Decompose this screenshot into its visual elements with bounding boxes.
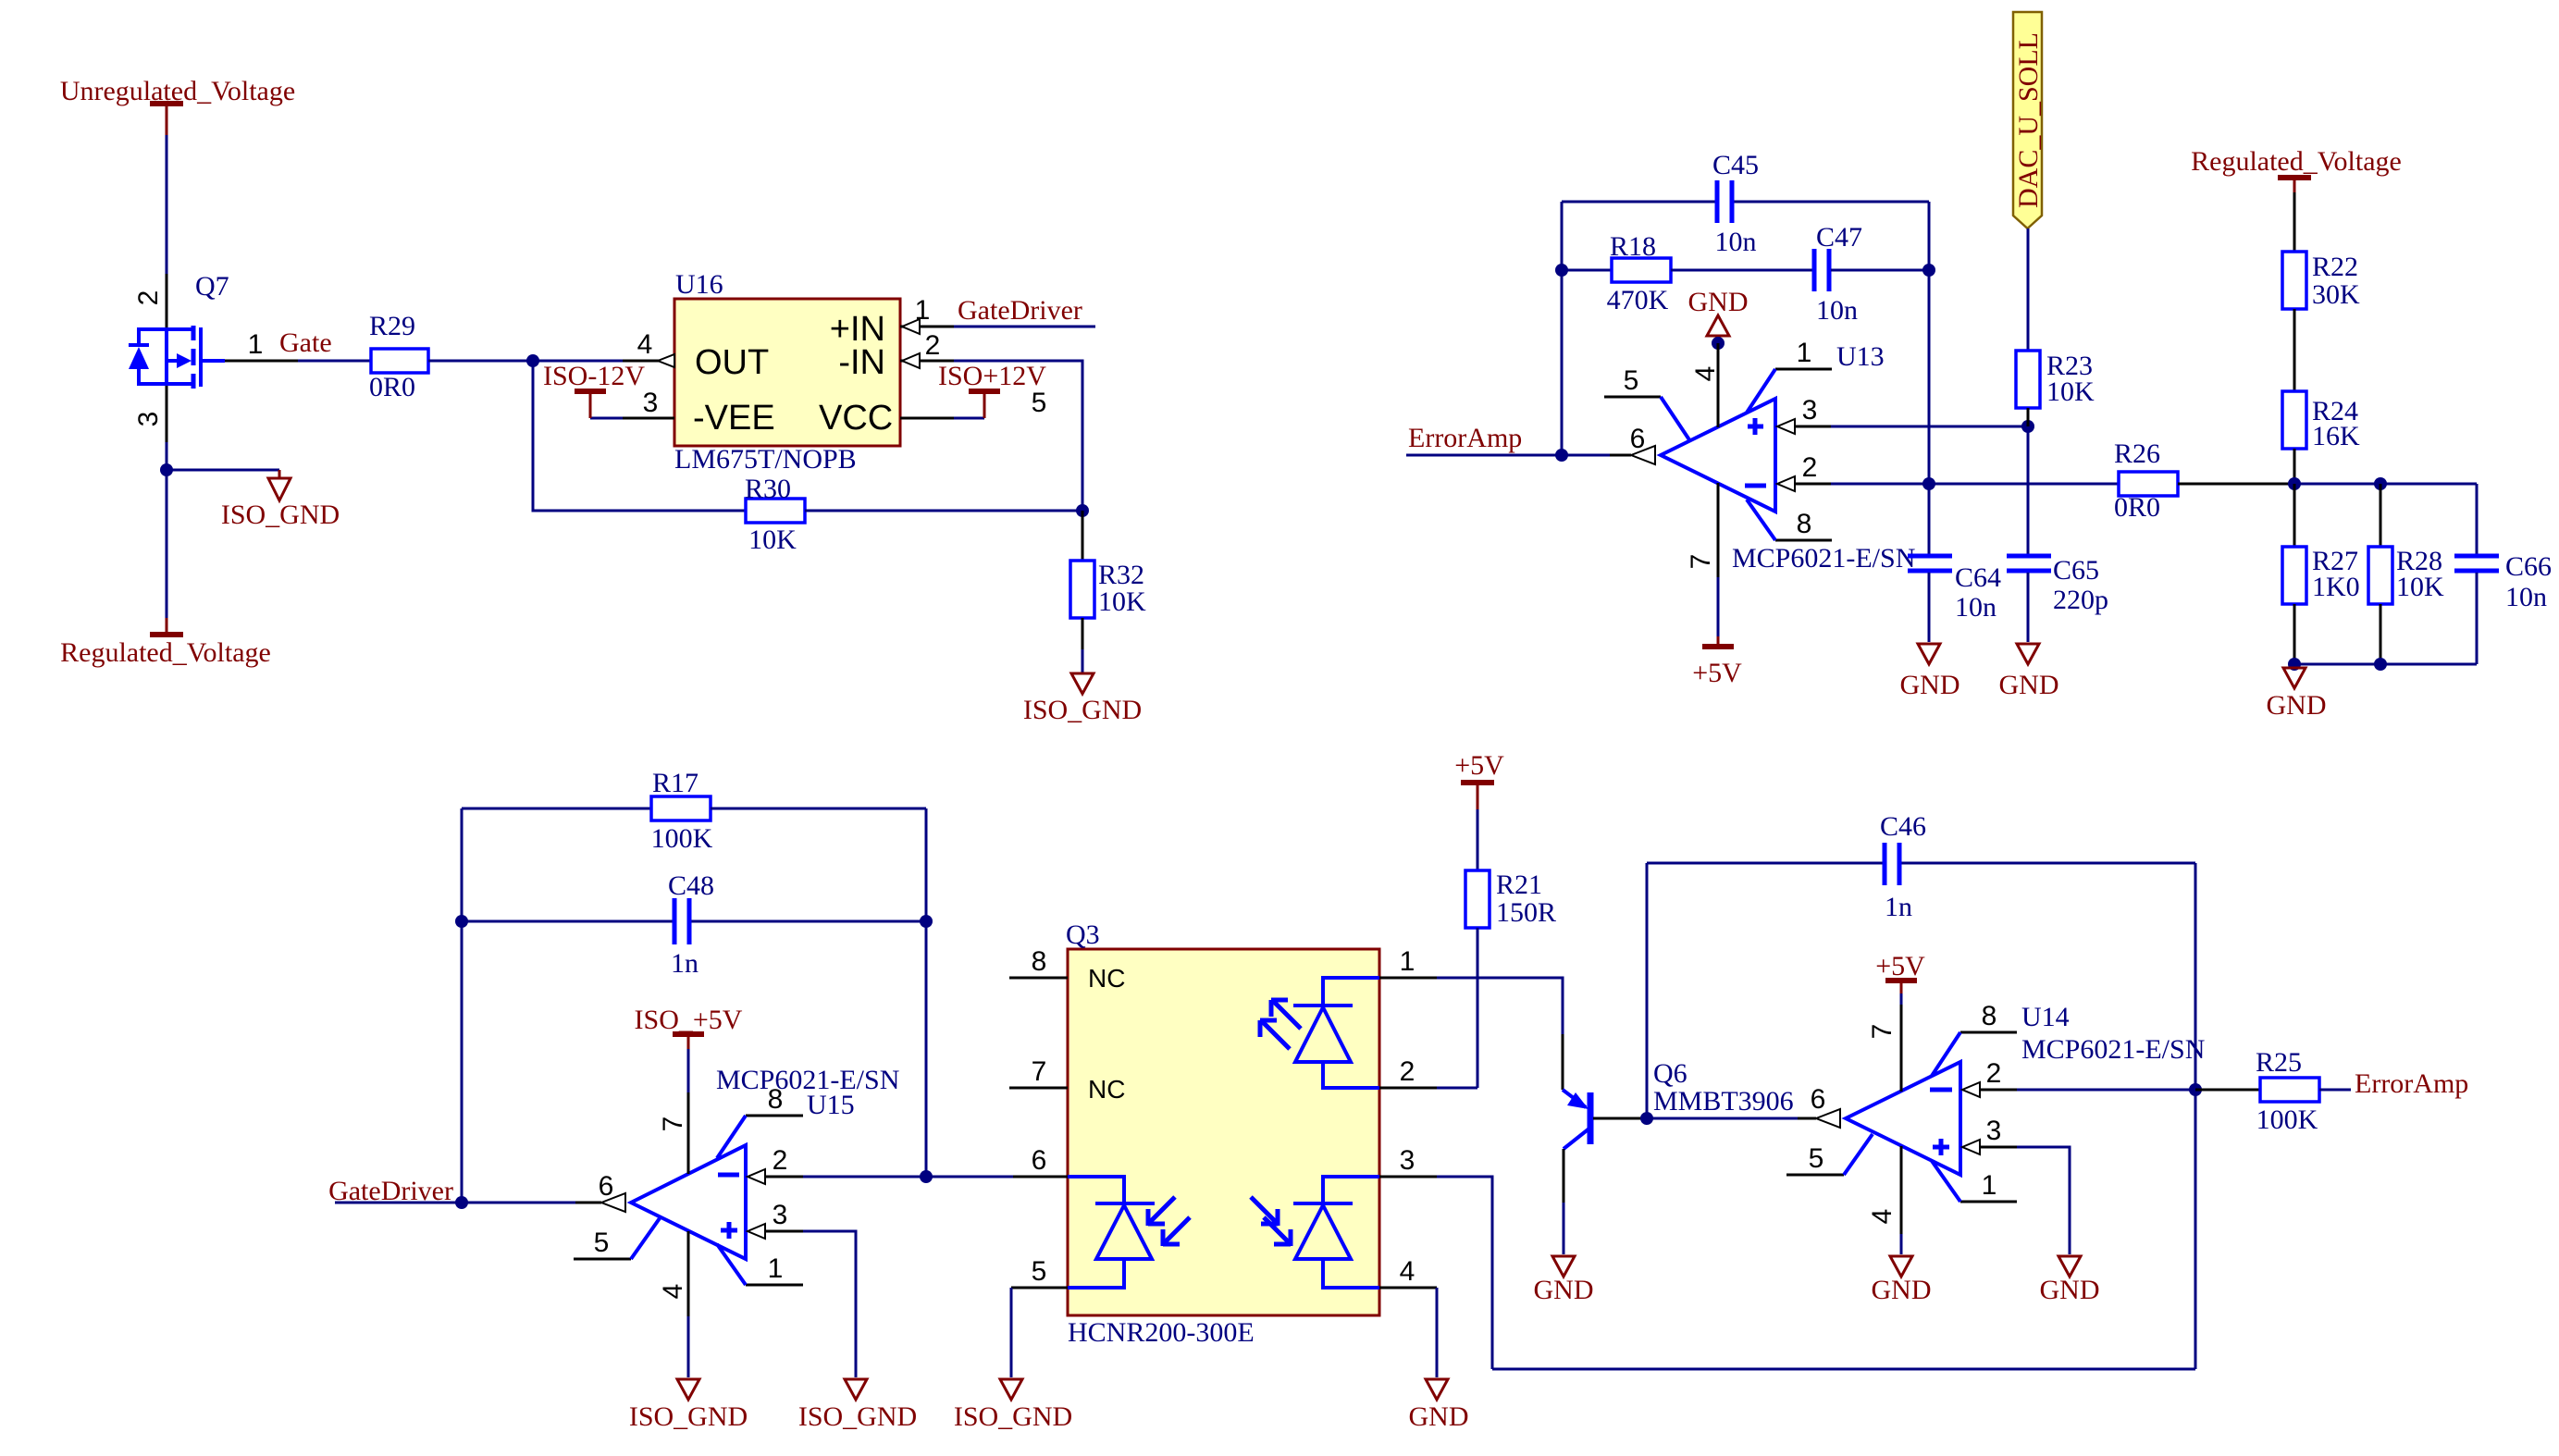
wire Q7 source down	[166, 442, 168, 618]
wire -IN feedback	[954, 361, 1082, 511]
resistor R23	[2016, 351, 2095, 426]
svg-text:1n: 1n	[671, 948, 698, 979]
svg-text:Gate: Gate	[279, 327, 332, 358]
wire to ISO_GND	[167, 469, 279, 472]
U13 pin 2 -IN	[1777, 476, 1795, 491]
U14 pin 4	[1900, 1146, 1903, 1234]
node junction bottom R27	[2288, 658, 2301, 671]
U15 pin 3 +IN	[748, 1224, 765, 1239]
svg-text:2: 2	[1986, 1058, 2002, 1089]
ground GND above U13 pin 4	[1688, 287, 1749, 343]
ground GND (divider)	[2267, 668, 2327, 721]
wire Q3 pin4 to GND	[1436, 1288, 1439, 1377]
wire R22 to R24	[2293, 309, 2296, 391]
svg-text:1n: 1n	[1885, 892, 1912, 922]
wire GateDriver to U15 output	[335, 1202, 575, 1204]
node junction R30/R32/-IN	[1076, 504, 1089, 517]
svg-text:ISO_GND: ISO_GND	[221, 500, 340, 530]
U16 pin 2 -IN	[900, 360, 954, 363]
svg-text:ISO_GND: ISO_GND	[1023, 695, 1142, 725]
svg-text:10K: 10K	[748, 524, 797, 555]
svg-text:DAC_U_SOLL: DAC_U_SOLL	[2013, 32, 2044, 208]
svg-text:8: 8	[1032, 946, 1047, 977]
svg-text:4: 4	[1867, 1209, 1898, 1225]
resistor R32	[1070, 511, 1146, 649]
svg-text:C48: C48	[668, 870, 714, 901]
svg-text:3: 3	[643, 388, 659, 418]
svg-text:6: 6	[1032, 1145, 1047, 1176]
svg-text:ISO+12V: ISO+12V	[938, 361, 1046, 391]
svg-text:1: 1	[768, 1253, 784, 1284]
wire divider bottom bus	[2294, 663, 2477, 666]
resistor R22	[2282, 252, 2360, 310]
wire Gate to R29	[298, 360, 371, 363]
svg-text:100K: 100K	[651, 823, 713, 854]
ground ISO_GND (Q3 pin5)	[954, 1379, 1072, 1432]
svg-text:Q6: Q6	[1653, 1058, 1687, 1089]
svg-text:HCNR200-300E: HCNR200-300E	[1068, 1317, 1255, 1348]
svg-text:5: 5	[1809, 1143, 1824, 1174]
svg-text:7: 7	[1032, 1056, 1047, 1087]
power port ISO-12V	[543, 361, 645, 418]
Q3 pin 1	[1379, 977, 1437, 980]
svg-text:C47: C47	[1816, 222, 1862, 253]
capacitor C64	[1908, 484, 2001, 642]
node junction C48 left	[455, 915, 468, 928]
wire -IN to R26	[1831, 483, 2119, 486]
node junction right top	[1922, 264, 1935, 277]
signal harness DAC_U_SOLL flag	[2013, 12, 2044, 228]
resistor R29	[369, 311, 428, 402]
transistor Q7 MOSFET body	[167, 271, 229, 389]
svg-text:GND: GND	[1999, 670, 2059, 700]
wire left feedback vertical	[1561, 202, 1564, 455]
op-amp U15	[631, 1065, 899, 1259]
svg-text:5: 5	[1032, 1256, 1047, 1287]
svg-text:7: 7	[658, 1117, 688, 1132]
svg-text:1: 1	[1400, 946, 1415, 977]
Q3 pin 4	[1379, 1287, 1437, 1289]
resistor R30	[745, 474, 805, 555]
resistor R26	[2114, 438, 2178, 523]
U15 pin 8	[746, 1115, 803, 1117]
wire R25 to ErrorAmp	[2319, 1089, 2351, 1092]
svg-text:6: 6	[599, 1171, 614, 1202]
svg-text:NC: NC	[1088, 964, 1125, 993]
resistor R24	[2282, 391, 2360, 451]
svg-text:10n: 10n	[1715, 227, 1757, 257]
svg-text:4: 4	[637, 329, 653, 360]
svg-text:GND: GND	[1900, 670, 1960, 700]
wire R18/C47 feedback	[1562, 269, 1612, 272]
svg-text:C64: C64	[1955, 562, 2001, 593]
transistor Q7 pin 3	[166, 386, 168, 442]
LED inside Q3	[1260, 978, 1379, 1088]
svg-text:5: 5	[1624, 365, 1639, 396]
node junction C48 right	[920, 915, 933, 928]
wire Q3 pin3 to bottom bus	[1437, 1177, 1492, 1369]
svg-text:-IN: -IN	[838, 343, 885, 382]
wire Regulated to R22	[2293, 192, 2296, 252]
svg-text:+5V: +5V	[1454, 750, 1504, 781]
capacitor C65	[2007, 555, 2108, 642]
svg-text:OUT: OUT	[695, 343, 769, 382]
wire R29 to U16 pin 4	[428, 360, 623, 363]
wire R23 junction down to C65	[2027, 426, 2030, 554]
wire C47 to right vertical	[1831, 269, 1929, 272]
svg-text:3: 3	[1802, 395, 1818, 426]
ground ISO_GND (top-left)	[221, 470, 340, 530]
svg-text:R18: R18	[1610, 231, 1656, 262]
svg-text:+5V: +5V	[1875, 951, 1925, 981]
wire R17 to right vertical	[711, 808, 926, 810]
node junction C46/-IN/R25	[2189, 1083, 2202, 1096]
svg-text:10K: 10K	[1098, 586, 1146, 617]
op-amp U13	[1661, 341, 1915, 574]
svg-text:2: 2	[773, 1145, 788, 1176]
svg-text:GND: GND	[1534, 1275, 1594, 1305]
wire +IN to R23 junction	[1831, 426, 2028, 428]
svg-text:GND: GND	[2267, 690, 2327, 721]
svg-text:1: 1	[915, 295, 931, 326]
U13 pin 7	[1717, 483, 1720, 577]
ground ISO_GND (U15 pin3)	[798, 1379, 917, 1432]
svg-text:C65: C65	[2053, 555, 2099, 586]
svg-text:1: 1	[1982, 1170, 1997, 1201]
svg-text:1: 1	[248, 329, 264, 360]
svg-text:GND: GND	[1409, 1401, 1469, 1432]
wire DAC flag to R23	[2027, 228, 2030, 351]
resistor R18	[1607, 231, 1671, 315]
svg-text:U13: U13	[1836, 341, 1885, 372]
svg-text:6: 6	[1811, 1084, 1826, 1115]
wire R17 top	[462, 808, 651, 810]
svg-text:C45: C45	[1712, 150, 1759, 180]
op-amp U16 LM675T	[674, 269, 900, 475]
node junction Gate/R30	[526, 354, 539, 367]
U14 pin 2 -IN	[1962, 1082, 1980, 1097]
wire +5V to R21	[1477, 809, 1479, 870]
U14 pin 7	[1900, 1005, 1903, 1092]
svg-text:U14: U14	[2021, 1002, 2070, 1032]
svg-text:1K0: 1K0	[2312, 572, 2360, 602]
photodiode PD1 inside Q3 (left)	[1068, 1177, 1190, 1288]
svg-text:NC: NC	[1088, 1075, 1125, 1104]
U14 pin 5	[1786, 1174, 1844, 1177]
node junction right -IN	[1922, 477, 1935, 490]
wire R24 to junction	[2293, 449, 2296, 484]
wire R32 to ISO_GND	[1082, 649, 1084, 673]
svg-text:0R0: 0R0	[369, 372, 415, 402]
svg-text:LM675T/NOPB: LM675T/NOPB	[674, 444, 857, 475]
svg-text:220p: 220p	[2053, 585, 2108, 615]
U15 pin 2 -IN	[748, 1169, 765, 1184]
body diode of Q7	[129, 329, 167, 384]
svg-text:1: 1	[1797, 338, 1812, 368]
wire right vertical (feedback)	[925, 808, 928, 1177]
power port Regulated_Voltage (right)	[2191, 146, 2402, 192]
wire Q6 base to U14 output	[1647, 1117, 1798, 1120]
svg-text:8: 8	[768, 1084, 784, 1115]
U15 pin 4	[687, 1231, 690, 1316]
svg-text:U15: U15	[807, 1090, 855, 1120]
wire U15 +IN to ISO_GND	[803, 1231, 856, 1377]
U16 pin 3 -VEE	[590, 417, 623, 420]
wire Unregulated to Q7 drain	[166, 135, 168, 274]
svg-text:3: 3	[133, 412, 164, 427]
node junction divider mid	[2288, 477, 2301, 490]
ground GND (Q6)	[1534, 1256, 1594, 1305]
svg-text:R25: R25	[2256, 1047, 2302, 1078]
wire ErrorAmp to U13 output	[1406, 454, 1610, 457]
svg-text:R29: R29	[369, 311, 415, 341]
svg-text:16K: 16K	[2312, 421, 2360, 451]
svg-text:Regulated_Voltage: Regulated_Voltage	[2191, 146, 2402, 177]
wire Q3 pin5 to ISO_GND	[1010, 1288, 1013, 1377]
svg-text:GateDriver: GateDriver	[958, 295, 1082, 326]
U14 pin 1	[1960, 1201, 2017, 1203]
svg-text:ISO_+5V: ISO_+5V	[635, 1005, 743, 1035]
svg-text:2: 2	[925, 330, 941, 361]
capacitor C48	[668, 870, 714, 979]
svg-text:ISO_GND: ISO_GND	[798, 1401, 917, 1432]
ground GND (U14 pin4)	[1872, 1256, 1932, 1305]
Q3 pin 6	[1013, 1176, 1068, 1178]
svg-text:2: 2	[133, 290, 164, 306]
svg-text:4: 4	[1400, 1256, 1415, 1287]
power port +5V (U13)	[1692, 636, 1742, 688]
transistor Q6 MMBT3906	[1563, 1034, 1794, 1203]
svg-text:2: 2	[1802, 452, 1818, 483]
power port +5V (R21)	[1454, 750, 1504, 809]
svg-text:MMBT3906: MMBT3906	[1653, 1086, 1794, 1117]
ground ISO_GND (under R32)	[1023, 673, 1142, 725]
power port +5V (U14)	[1875, 951, 1925, 993]
svg-text:10K: 10K	[2396, 572, 2444, 602]
resistor R27	[2282, 484, 2360, 664]
svg-text:Q3: Q3	[1066, 919, 1100, 950]
ground ISO_GND (U15 pin4)	[629, 1379, 748, 1432]
svg-text:0R0: 0R0	[2114, 492, 2160, 523]
svg-text:MCP6021-E/SN: MCP6021-E/SN	[2021, 1034, 2205, 1065]
wire junction to R25	[2195, 1089, 2260, 1092]
wire Q6 collector to GND	[1563, 1203, 1565, 1254]
U15 pin 5	[574, 1258, 631, 1261]
capacitor C47	[1814, 222, 1862, 326]
Q3 pin 3	[1379, 1176, 1437, 1178]
svg-text:C46: C46	[1880, 811, 1926, 842]
wire C48 row	[462, 920, 673, 923]
power port ISO_+5V	[635, 1005, 743, 1049]
wire U14 +IN to GND	[2017, 1147, 2070, 1254]
wire R26 to divider	[2178, 483, 2294, 486]
U16 pin 4 OUT	[623, 360, 674, 363]
svg-text:470K: 470K	[1607, 285, 1669, 315]
U13 pin 3 +IN	[1777, 419, 1795, 434]
svg-text:8: 8	[1797, 509, 1812, 539]
svg-text:6: 6	[1630, 424, 1646, 454]
svg-text:10n: 10n	[1955, 592, 1997, 623]
wire GateDriver to U16 pin 1	[954, 326, 1095, 328]
svg-text:30K: 30K	[2312, 279, 2360, 310]
capacitor C45	[1712, 150, 1759, 257]
svg-text:3: 3	[1986, 1116, 2002, 1146]
power port Unregulated_Voltage	[60, 76, 295, 135]
resistor R21	[1465, 870, 1556, 928]
U15 pin 1	[746, 1284, 803, 1287]
svg-text:3: 3	[1400, 1145, 1415, 1176]
node junction GateDriver	[455, 1196, 468, 1209]
U13 pin 8	[1775, 539, 1832, 542]
svg-text:-VEE: -VEE	[693, 399, 775, 438]
svg-text:MCP6021-E/SN: MCP6021-E/SN	[1732, 543, 1915, 574]
transistor Q7 pin 2	[166, 274, 168, 329]
U14 pin 6 output	[1798, 1117, 1816, 1120]
transistor Q7 pin 1 (gate)	[201, 359, 225, 363]
node junction source/ISO_GND	[160, 463, 173, 476]
wire U15 -IN to Q3 pin 6	[803, 1176, 1013, 1178]
node junction R23/+IN	[2021, 420, 2034, 433]
Q3 pin 2	[1379, 1087, 1437, 1090]
capacitor C46	[1880, 811, 1926, 922]
resistor R17	[651, 768, 713, 854]
svg-text:R30: R30	[745, 474, 791, 504]
wire C46 top	[1647, 862, 1883, 865]
node junction Q6 base / C46	[1640, 1112, 1653, 1125]
wire R21 to Q3 pin2	[1477, 928, 1479, 1088]
wire U14 -IN to junction	[2017, 1089, 2195, 1092]
svg-text:ErrorAmp: ErrorAmp	[2355, 1068, 2468, 1099]
svg-text:GND: GND	[1872, 1275, 1932, 1305]
ground GND (Q3 pin4)	[1409, 1379, 1469, 1432]
svg-text:3: 3	[773, 1200, 788, 1230]
svg-text:GND: GND	[2040, 1275, 2100, 1305]
power port ISO+12V	[938, 361, 1046, 418]
wire bottom bus	[1492, 1368, 2195, 1371]
svg-text:7: 7	[1686, 554, 1716, 570]
U13 pin 4	[1717, 343, 1720, 427]
svg-text:R21: R21	[1496, 870, 1542, 900]
svg-text:R26: R26	[2114, 438, 2160, 469]
photodiode PD2 inside Q3 (right)	[1251, 1177, 1379, 1288]
svg-text:Regulated_Voltage: Regulated_Voltage	[60, 637, 271, 668]
wire right feedback vertical	[1928, 202, 1931, 484]
wire Q3 pin1 to Q6 emitter	[1437, 978, 1563, 1034]
svg-text:R22: R22	[2312, 252, 2358, 282]
node junction bottom R28	[2374, 658, 2387, 671]
U13 pin 5	[1604, 396, 1661, 399]
U16 pin 5 VCC	[900, 417, 954, 420]
Q3 pin 5	[1011, 1287, 1068, 1289]
node junction output	[1555, 449, 1568, 462]
U13 pin 6 output	[1610, 454, 1631, 457]
node dot GND pin4	[1712, 337, 1725, 350]
svg-text:7: 7	[1867, 1024, 1898, 1040]
resistor R28	[2368, 484, 2444, 664]
node junction feedback/-IN	[920, 1170, 933, 1183]
resistor R25	[2256, 1047, 2319, 1135]
U14 pin 8	[1960, 1031, 2017, 1034]
svg-text:8: 8	[1982, 1001, 1997, 1031]
svg-text:4: 4	[1690, 366, 1721, 382]
svg-text:10K: 10K	[2046, 376, 2095, 407]
svg-text:150R: 150R	[1496, 897, 1556, 928]
svg-text:ISO_GND: ISO_GND	[954, 1401, 1072, 1432]
svg-text:R17: R17	[652, 768, 698, 798]
wire divider mid to C66	[2294, 483, 2477, 486]
svg-text:ErrorAmp: ErrorAmp	[1408, 423, 1522, 453]
U16 pin 1 +IN	[900, 326, 954, 328]
U14 pin 3 +IN	[1962, 1140, 1980, 1154]
op-amp U14	[1846, 1002, 2205, 1175]
svg-text:ISO-12V: ISO-12V	[543, 361, 645, 391]
wire R17 loop left vertical	[461, 808, 464, 1203]
optocoupler Q3 HCNR200 body	[1066, 919, 1379, 1348]
wire R30 to junction	[805, 510, 1082, 512]
ground GND (U14 pin3)	[2040, 1256, 2100, 1305]
svg-text:5: 5	[1032, 388, 1047, 418]
svg-text:2: 2	[1400, 1056, 1415, 1087]
svg-text:100K: 100K	[2256, 1104, 2318, 1135]
wire C46 left vertical	[1646, 863, 1649, 1118]
svg-text:4: 4	[658, 1284, 688, 1300]
ground GND (C65)	[1999, 644, 2059, 700]
svg-text:C66: C66	[2505, 551, 2552, 582]
wire R30 feedback loop	[533, 361, 746, 511]
capacitor C66	[2454, 484, 2552, 664]
svg-text:U16: U16	[675, 269, 723, 300]
node junction left	[1555, 264, 1568, 277]
node junction R28 top	[2374, 477, 2387, 490]
svg-text:VCC: VCC	[819, 399, 893, 438]
svg-text:10n: 10n	[2505, 582, 2547, 612]
svg-text:5: 5	[594, 1228, 610, 1258]
wire C45 feedback top	[1562, 201, 1715, 204]
U15 pin 7	[687, 1092, 690, 1174]
power port Regulated_Voltage (left)	[60, 618, 271, 668]
U13 pin 1	[1775, 368, 1832, 371]
svg-text:Q7: Q7	[195, 271, 229, 302]
svg-text:ISO_GND: ISO_GND	[629, 1401, 748, 1432]
wire R18 to C47	[1671, 269, 1812, 272]
svg-text:+5V: +5V	[1692, 658, 1742, 688]
svg-text:10n: 10n	[1816, 295, 1858, 326]
U15 pin 6 output	[575, 1202, 601, 1204]
ground GND (C64)	[1900, 644, 1960, 700]
Q3 pin 7	[1009, 1087, 1068, 1090]
Q3 pin 8	[1009, 977, 1068, 980]
wire C46 right vertical	[2194, 863, 2197, 1369]
